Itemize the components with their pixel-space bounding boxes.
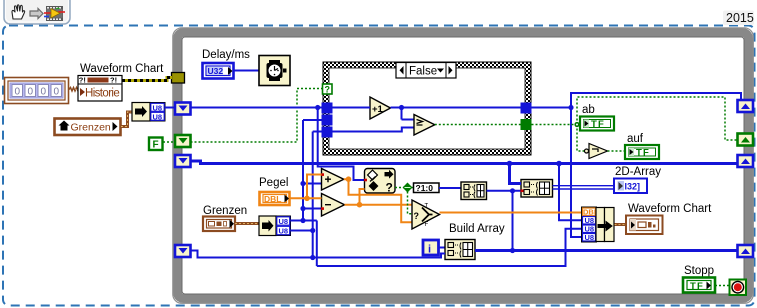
indicator auf TF — [625, 145, 659, 159]
wire U32 to wait — [234, 70, 260, 72]
svg-text:Build Array: Build Array — [449, 223, 505, 235]
branch down to bundle U8 no.1 — [559, 164, 582, 221]
wire dotted Stopp to loop condition — [715, 285, 730, 287]
green junction circle at ab input — [574, 122, 579, 127]
select node (? T/F) — [412, 200, 440, 229]
wire dotted green case t5 out with junction — [532, 97, 739, 151]
wire 2D array shift: SR2 across to right SR — [191, 161, 739, 164]
junction dot on count wire — [315, 105, 320, 110]
junction dot orange — [304, 196, 310, 202]
while loop border — [173, 28, 754, 304]
junction dot U8-bottom net — [310, 228, 315, 233]
control Pegel DBL — [260, 192, 290, 205]
shift register green right (up arrow) — [738, 134, 754, 146]
svg-text:Delay/ms: Delay/ms — [202, 49, 250, 61]
svg-text:ab: ab — [582, 104, 595, 116]
svg-text:Stopp: Stopp — [684, 265, 714, 277]
junction dot after +1 — [399, 105, 404, 110]
hand tool icon — [12, 5, 25, 19]
wire (yellow/black dashed) property node to olive tunnel — [122, 78, 172, 81]
wire U8 bottom out: right, vertical to t3 and down — [291, 132, 322, 258]
wire unbundle U8 to SR1 left — [165, 107, 175, 109]
arrow tool icon — [30, 9, 43, 19]
svg-text:?: ? — [386, 181, 393, 195]
svg-text:F: F — [425, 222, 429, 228]
unbundle node 2 (inside loop) U8/U8 — [259, 216, 291, 236]
subtract node - — [321, 194, 345, 217]
wire orange Pegel to + and - — [290, 175, 322, 199]
svg-text:Waveform Chart: Waveform Chart — [80, 63, 164, 75]
svg-text:TF: TF — [636, 147, 650, 158]
add node + — [321, 169, 344, 191]
loop condition terminal (stop sign) — [730, 280, 747, 296]
svg-text:?: ? — [325, 85, 331, 95]
svg-text:U8: U8 — [585, 233, 595, 242]
wire case out t4 to junction, up and right to SR1 right — [532, 93, 742, 108]
wire orange minus-output to select T and up-branch to in-range low — [345, 189, 413, 205]
svg-text:Pegel: Pegel — [259, 177, 288, 189]
case selector label False — [396, 63, 456, 79]
case tunnel t5 (green, right) — [521, 119, 532, 130]
wire under: U8-top down across to bundle U8 no.2 — [317, 229, 582, 266]
svg-text:2D-Array: 2D-Array — [615, 166, 661, 178]
svg-text:Grenzen: Grenzen — [203, 205, 247, 217]
property node Waveform Chart / Historie — [78, 76, 122, 102]
shift register SR3 right (up arrow) — [738, 245, 754, 257]
svg-text:0: 0 — [15, 87, 21, 98]
wire dotted green in-range ? out, diamond junction, to ?1:0 and select s — [395, 188, 414, 214]
wire dotted not to auf — [608, 150, 626, 152]
wire blue ?1:0 out to build array 1 — [439, 187, 461, 189]
junction dots on U8-top net — [300, 218, 305, 223]
svg-text:?!: ?! — [79, 76, 86, 85]
shift register green left (down arrow) — [175, 135, 191, 147]
2015 year label — [723, 11, 754, 26]
shift register SR2 left (down arrow) — [175, 155, 191, 167]
local variable Grenzen (outside loop) — [55, 119, 121, 136]
junction dot orange 2 — [357, 202, 363, 208]
svg-text:?!: ?! — [110, 76, 117, 85]
control Stopp TF — [683, 278, 715, 293]
unbundle node (outside loop) U8/U8 — [132, 103, 165, 122]
build array node 3 — [445, 240, 475, 260]
branch down into build array 2 upper input — [510, 164, 522, 184]
svg-text:0: 0 — [41, 87, 47, 98]
wire orange select out to bundle DBL — [440, 212, 583, 214]
svg-text:U8: U8 — [279, 227, 289, 236]
case structure border (checkered) — [323, 62, 531, 155]
wire (brown dashed) Grenzen control to unbundle2 — [235, 222, 259, 225]
VI icon (film strip with triangle) — [44, 6, 65, 21]
+1 increment node — [370, 97, 391, 119]
wire dotted green: green SR left to ? terminal — [191, 89, 323, 143]
svg-text:F: F — [153, 140, 159, 151]
tunnel (olive, Historie cluster) on left loop border — [172, 73, 185, 84]
case tunnel t4 (blue, right) — [521, 103, 532, 114]
wire orange plus-output down to select F — [344, 179, 412, 222]
iteration terminal i — [423, 240, 439, 256]
svg-text:Waveform Chart: Waveform Chart — [628, 203, 712, 215]
constant F (false) — [149, 138, 163, 151]
junction dot orange 3 — [346, 176, 352, 182]
wire dotted F to green SR — [163, 141, 175, 143]
svg-text:?: ? — [414, 211, 420, 221]
wire zigzag cluster from 0000 to property node — [69, 88, 81, 92]
wire build array 3 output to right SR3 — [475, 249, 738, 252]
svg-text:TF: TF — [690, 281, 704, 292]
shift register SR1 right (up arrow) — [738, 100, 754, 112]
case tunnel t3 (blue, left) — [322, 127, 333, 138]
wire build array1 out to build array2, junction down — [487, 190, 522, 192]
wire i to build array 3 — [440, 247, 446, 249]
svg-text:auf: auf — [627, 133, 644, 145]
wire inside case: t1 to +1 to t4 — [333, 108, 521, 132]
svg-text:Historie: Historie — [85, 88, 119, 100]
wire dotted green: gte output to t5 — [435, 124, 521, 126]
svg-text:Grenzen: Grenzen — [71, 122, 111, 134]
svg-text:False: False — [409, 66, 437, 78]
svg-text:i: i — [428, 244, 431, 256]
wait (ms) function — [259, 56, 290, 86]
not gate — [585, 144, 608, 159]
svg-text:U8: U8 — [153, 103, 163, 112]
shift register SR1 left (down arrow) — [175, 103, 191, 115]
build array node 2 — [521, 180, 553, 198]
shift register SR2 right (up arrow) — [738, 155, 754, 167]
toolbar palette top-left — [4, 0, 70, 24]
svg-text:0: 0 — [54, 87, 60, 98]
indicator ab TF — [580, 117, 614, 131]
svg-text:TF: TF — [591, 119, 605, 130]
in range and coerce node — [364, 169, 395, 195]
svg-text:?1:0: ?1:0 — [416, 183, 434, 193]
cluster constant 0 0 0 0 (chart history init) — [5, 78, 69, 104]
indicator Waveform Chart — [626, 216, 663, 235]
svg-text:2015: 2015 — [726, 11, 754, 25]
svg-text:0: 0 — [28, 87, 34, 98]
svg-text:U32: U32 — [208, 66, 224, 76]
greater-or-equal node — [414, 115, 435, 136]
shift register SR3 left (down arrow) — [175, 245, 191, 257]
svg-text:T: T — [425, 204, 429, 210]
case tunnel t2 (blue, left) — [322, 115, 333, 126]
indicator 2D-Array I32 — [614, 179, 647, 194]
wire SR3 to build array 3 lower input — [191, 251, 446, 258]
wire 2D array double line BA2 to I32 indicator — [553, 186, 615, 189]
svg-text:U8: U8 — [153, 112, 163, 121]
svg-text:DBL: DBL — [264, 194, 281, 204]
select boolean-to-number ?1:0 node — [414, 183, 440, 193]
control Grenzen cluster — [203, 217, 235, 232]
wire brown dashed bundle to waveform chart — [615, 223, 627, 226]
build array node 1 — [461, 182, 487, 200]
control U32 Delay/ms — [203, 63, 234, 79]
case tunnel t1 (blue, left) — [322, 103, 333, 114]
wire count down to bundle U8 no.3 — [571, 108, 582, 238]
green diamond junction — [403, 183, 413, 193]
wire count branch down to in-range — [318, 108, 365, 181]
wire main count: SR1 to case t1 with junction — [191, 107, 324, 109]
svg-text:U8: U8 — [279, 217, 289, 226]
svg-text:I32]: I32] — [625, 182, 641, 192]
wire U8 top out: right, junction, vertical up to t2, down-branch — [291, 120, 322, 266]
wire (brown dashed) Grenzen LV to unbundle — [121, 112, 132, 127]
svg-text:+1: +1 — [372, 104, 384, 115]
case selector terminal ? — [323, 84, 333, 95]
bundle node DBL/U8/U8/U8 — [582, 207, 615, 242]
